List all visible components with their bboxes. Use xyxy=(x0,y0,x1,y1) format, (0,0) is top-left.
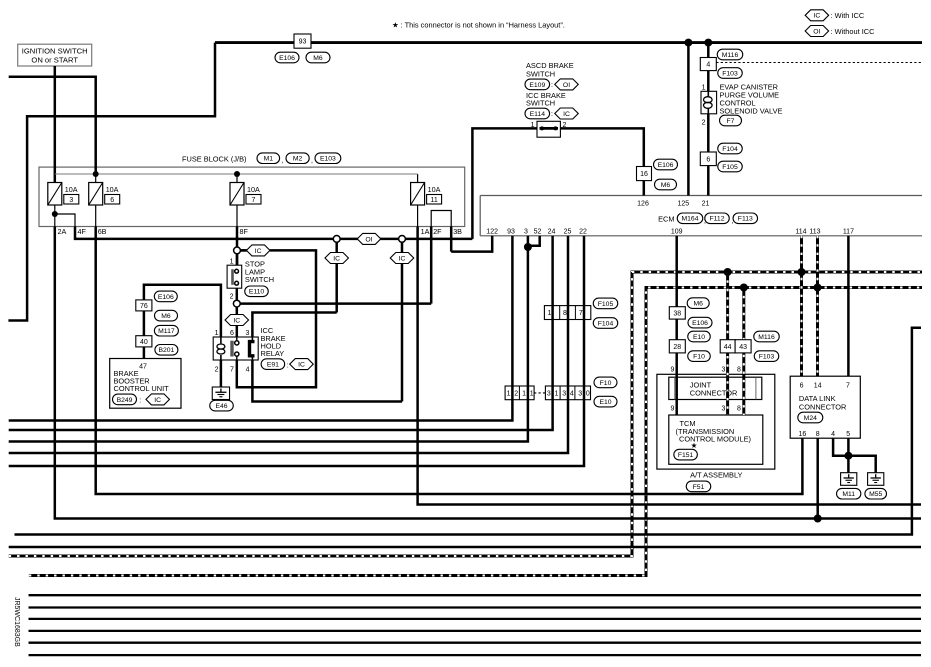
svg-text:M117: M117 xyxy=(158,328,175,335)
svg-text:IC: IC xyxy=(298,362,305,369)
svg-text:F113: F113 xyxy=(738,216,753,223)
svg-text:93: 93 xyxy=(299,39,307,46)
svg-text:4: 4 xyxy=(706,62,710,69)
svg-text:M164: M164 xyxy=(681,216,698,223)
svg-text:E10: E10 xyxy=(693,334,705,341)
svg-text:M116: M116 xyxy=(758,334,775,341)
svg-text:8: 8 xyxy=(737,367,741,374)
svg-text:SWITCH: SWITCH xyxy=(245,275,274,284)
svg-text:IC: IC xyxy=(813,13,820,20)
svg-text:F112: F112 xyxy=(710,216,725,223)
svg-text:CONNECTOR: CONNECTOR xyxy=(690,388,738,397)
svg-text:4F: 4F xyxy=(78,227,87,236)
svg-text:1: 1 xyxy=(531,122,535,129)
svg-text:OI: OI xyxy=(365,236,372,243)
svg-text:8F: 8F xyxy=(240,227,249,236)
svg-text:F151: F151 xyxy=(678,452,694,459)
svg-text:2: 2 xyxy=(230,293,234,300)
svg-text:M2: M2 xyxy=(293,156,303,163)
svg-text:10A: 10A xyxy=(247,185,260,194)
svg-text:113: 113 xyxy=(809,228,820,235)
svg-text:1: 1 xyxy=(547,310,551,317)
svg-text:6: 6 xyxy=(230,330,234,337)
svg-text:6B: 6B xyxy=(98,227,107,236)
svg-text:6: 6 xyxy=(800,382,804,389)
svg-text:IC: IC xyxy=(154,397,161,404)
svg-text:RELAY: RELAY xyxy=(261,349,285,358)
svg-text:125: 125 xyxy=(677,200,689,207)
svg-text:E106: E106 xyxy=(158,294,174,301)
svg-text:4: 4 xyxy=(831,431,835,438)
svg-text:3: 3 xyxy=(547,391,551,398)
svg-text:FUSE BLOCK (J/B): FUSE BLOCK (J/B) xyxy=(182,154,246,163)
svg-text:E114: E114 xyxy=(530,111,546,118)
svg-text:,: , xyxy=(282,158,284,165)
svg-text:: With ICC: : With ICC xyxy=(831,11,865,20)
svg-text:3: 3 xyxy=(245,330,249,337)
svg-text::: : xyxy=(551,111,553,118)
svg-text:7: 7 xyxy=(846,382,850,389)
svg-text:SWITCH: SWITCH xyxy=(526,98,555,107)
svg-text:M116: M116 xyxy=(722,52,739,59)
svg-text::: : xyxy=(139,398,141,405)
svg-text:76: 76 xyxy=(140,303,148,310)
svg-text:4: 4 xyxy=(246,366,250,373)
svg-text:3: 3 xyxy=(524,228,528,235)
svg-text:1: 1 xyxy=(702,84,706,91)
svg-text:1A: 1A xyxy=(421,227,430,236)
svg-text:0: 0 xyxy=(586,391,590,398)
svg-text:3B: 3B xyxy=(453,227,462,236)
svg-text:B201: B201 xyxy=(158,347,174,354)
svg-text:IC: IC xyxy=(255,248,262,255)
svg-text:109: 109 xyxy=(671,228,683,235)
svg-text:122: 122 xyxy=(486,228,498,235)
svg-text:93: 93 xyxy=(507,228,515,235)
svg-text:9: 9 xyxy=(671,406,675,413)
svg-text:1: 1 xyxy=(522,391,526,398)
svg-text:M6: M6 xyxy=(661,182,671,189)
svg-text:E91: E91 xyxy=(267,362,279,369)
svg-text:2: 2 xyxy=(702,119,706,126)
svg-text:F10: F10 xyxy=(600,380,612,387)
svg-text:ECM: ECM xyxy=(658,215,674,224)
svg-text:,: , xyxy=(311,158,313,165)
svg-text:4: 4 xyxy=(570,391,574,398)
svg-text:ON or START: ON or START xyxy=(31,56,78,65)
svg-text:F104: F104 xyxy=(598,320,614,327)
svg-text:6: 6 xyxy=(706,156,710,163)
svg-text:25: 25 xyxy=(564,228,572,235)
svg-text:7: 7 xyxy=(252,197,256,204)
svg-text:F7: F7 xyxy=(727,118,735,125)
svg-text:E10: E10 xyxy=(599,399,611,406)
svg-text:2F: 2F xyxy=(433,227,442,236)
svg-text:1: 1 xyxy=(507,391,511,398)
svg-text::: : xyxy=(551,82,553,89)
svg-text:IC: IC xyxy=(563,111,570,118)
svg-text:21: 21 xyxy=(702,200,710,207)
svg-text:IGNITION SWITCH: IGNITION SWITCH xyxy=(22,47,88,56)
svg-text:3: 3 xyxy=(578,391,582,398)
svg-text:114: 114 xyxy=(795,228,806,235)
svg-text:E110: E110 xyxy=(249,289,265,296)
svg-text:F105: F105 xyxy=(722,164,738,171)
svg-text:E106: E106 xyxy=(692,320,708,327)
svg-text:B249: B249 xyxy=(117,397,133,404)
svg-text:JR5WC1683GB: JR5WC1683GB xyxy=(13,597,20,647)
svg-text:M24: M24 xyxy=(804,415,817,422)
svg-text:11: 11 xyxy=(430,197,437,204)
svg-text:F10: F10 xyxy=(693,354,705,361)
svg-text:28: 28 xyxy=(673,344,681,351)
svg-text:M1: M1 xyxy=(264,156,274,163)
svg-text:40: 40 xyxy=(140,339,148,346)
svg-text:24: 24 xyxy=(548,228,556,235)
svg-text:3: 3 xyxy=(69,197,73,204)
svg-text:F103: F103 xyxy=(722,70,738,77)
svg-text:7: 7 xyxy=(579,310,583,317)
svg-text:CONTROL UNIT: CONTROL UNIT xyxy=(114,384,170,393)
svg-text:SWITCH: SWITCH xyxy=(526,69,555,78)
svg-text:E106: E106 xyxy=(279,55,295,62)
svg-text:IC: IC xyxy=(399,255,406,262)
svg-text:★ : This connector is not show: ★ : This connector is not shown in “Harn… xyxy=(392,20,565,29)
svg-text:IC: IC xyxy=(333,255,340,262)
svg-text:E103: E103 xyxy=(320,156,336,163)
svg-text:2: 2 xyxy=(514,391,518,398)
svg-text:CONNECTOR: CONNECTOR xyxy=(799,402,847,411)
svg-text:1: 1 xyxy=(230,258,234,265)
svg-text:E109: E109 xyxy=(529,82,545,89)
svg-text:M6: M6 xyxy=(693,301,703,308)
svg-text:43: 43 xyxy=(739,344,747,351)
svg-text:3: 3 xyxy=(562,391,566,398)
svg-text:A/T ASSEMBLY: A/T ASSEMBLY xyxy=(690,471,742,480)
svg-text:10A: 10A xyxy=(106,185,119,194)
svg-text:126: 126 xyxy=(637,200,649,207)
svg-text:8: 8 xyxy=(563,310,567,317)
svg-text:47: 47 xyxy=(139,363,147,370)
svg-text:1: 1 xyxy=(530,391,534,398)
svg-text:2: 2 xyxy=(215,366,219,373)
svg-text:IC: IC xyxy=(233,317,240,324)
svg-text:16: 16 xyxy=(799,431,807,438)
svg-text:6: 6 xyxy=(110,197,114,204)
svg-text:E106: E106 xyxy=(658,162,674,169)
svg-text:8: 8 xyxy=(816,431,820,438)
svg-text:38: 38 xyxy=(673,310,681,317)
svg-text:8: 8 xyxy=(737,406,741,413)
svg-text:2A: 2A xyxy=(58,227,67,236)
svg-text:F105: F105 xyxy=(598,301,614,308)
svg-text:SOLENOID VALVE: SOLENOID VALVE xyxy=(720,106,783,115)
svg-text:7: 7 xyxy=(230,366,234,373)
svg-text:F103: F103 xyxy=(759,354,775,361)
svg-text:22: 22 xyxy=(579,228,587,235)
svg-text:3: 3 xyxy=(722,406,726,413)
svg-text:44: 44 xyxy=(724,344,732,351)
svg-text:16: 16 xyxy=(640,171,648,178)
svg-text:M11: M11 xyxy=(842,491,855,498)
svg-text:F51: F51 xyxy=(693,484,705,491)
svg-text:52: 52 xyxy=(534,228,542,235)
svg-text:: Without ICC: : Without ICC xyxy=(831,27,876,36)
svg-text::: : xyxy=(287,362,289,369)
svg-text:3: 3 xyxy=(722,367,726,374)
svg-text:OI: OI xyxy=(813,28,820,35)
svg-text:OI: OI xyxy=(563,82,570,89)
svg-text:M6: M6 xyxy=(313,55,323,62)
svg-text:14: 14 xyxy=(814,382,822,389)
svg-text:F104: F104 xyxy=(722,146,738,153)
svg-text:10A: 10A xyxy=(65,185,78,194)
svg-text:117: 117 xyxy=(843,228,854,235)
svg-text:M55: M55 xyxy=(869,491,882,498)
svg-text:1: 1 xyxy=(215,330,219,337)
svg-text:5: 5 xyxy=(846,431,850,438)
svg-text:1: 1 xyxy=(554,391,558,398)
svg-text:M6: M6 xyxy=(161,313,171,320)
svg-text:10A: 10A xyxy=(428,185,441,194)
svg-text:E46: E46 xyxy=(215,403,227,410)
svg-text:9: 9 xyxy=(671,367,675,374)
svg-text:2: 2 xyxy=(563,122,567,129)
